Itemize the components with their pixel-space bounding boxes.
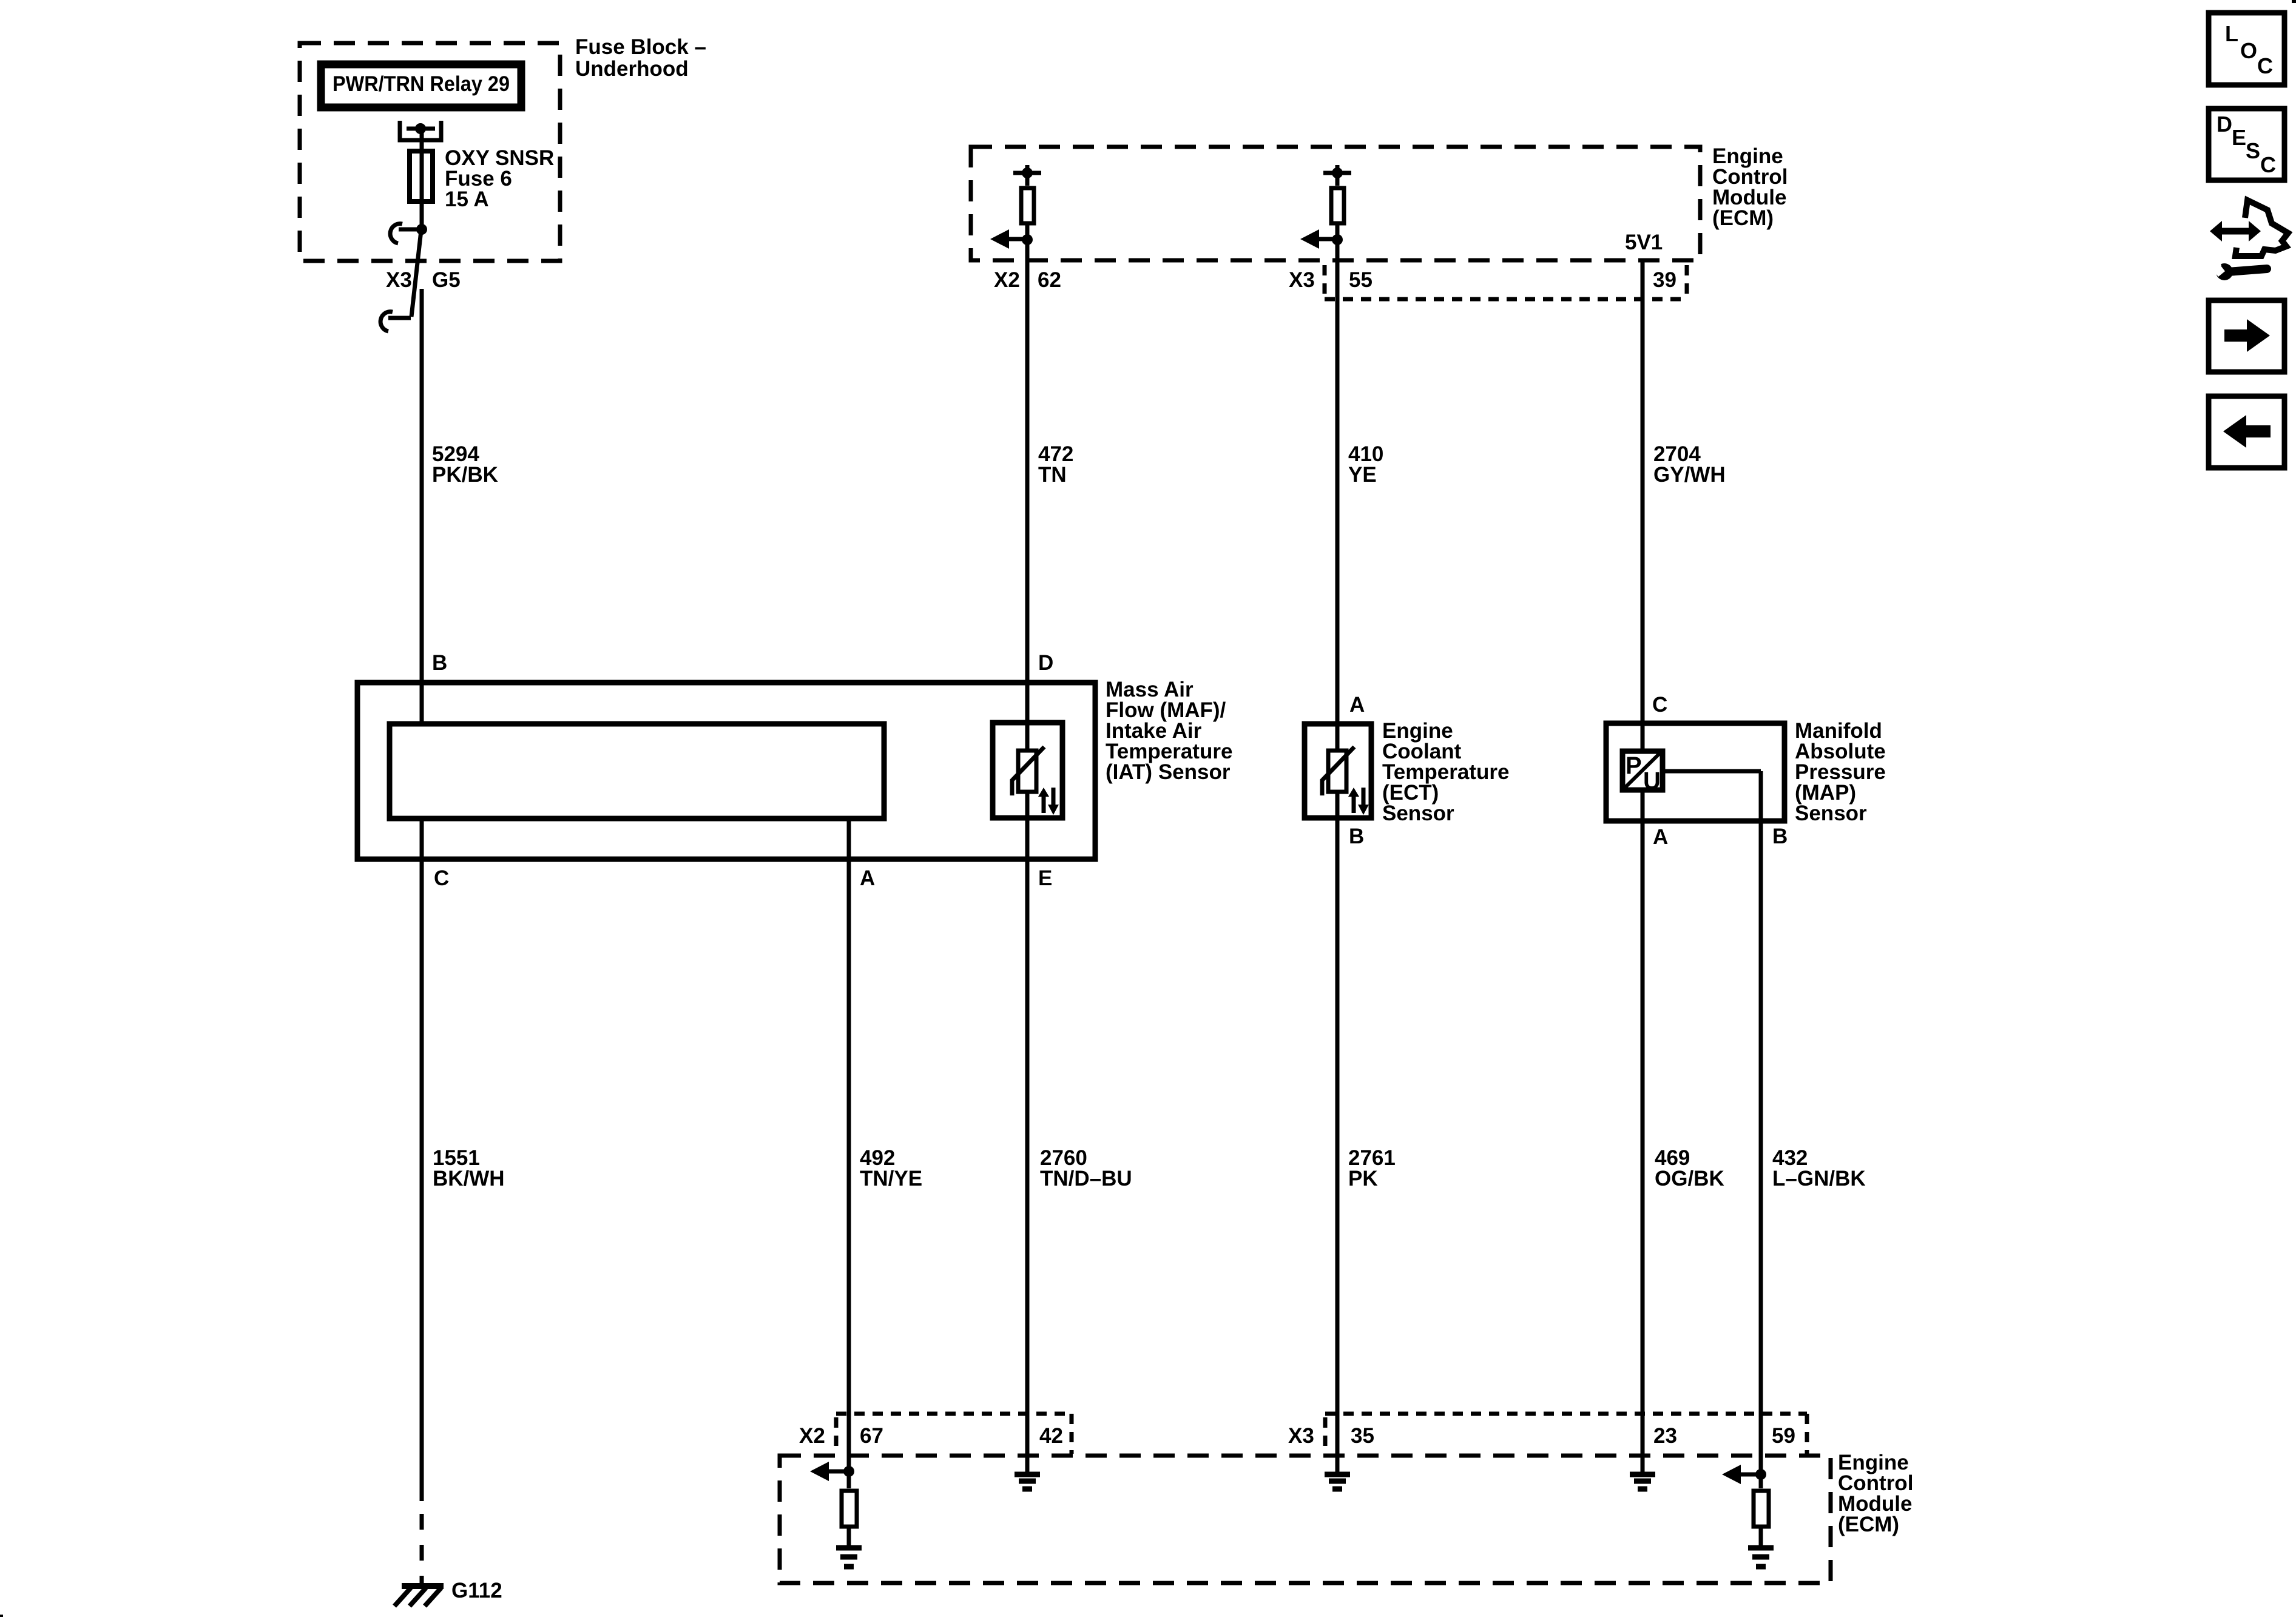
ECM pull-up resistor R2 (pin 55) (1323, 165, 1351, 223)
pin letter B (432, 651, 447, 675)
wire label 2760 TN/D-BU (1040, 1146, 1132, 1190)
svg-text:23: 23 (1653, 1424, 1677, 1448)
svg-text:L: L (2225, 21, 2238, 46)
svg-text:55: 55 (1349, 268, 1373, 292)
svg-text:X3: X3 (1288, 1424, 1314, 1448)
ECM connector X2 dotted sub-box (pins 67..42) (836, 1414, 1072, 1454)
ECM signal arrow at pin 55 (1300, 229, 1343, 249)
label: Engine Control Module (ECM) bottom (1838, 1451, 1913, 1536)
pin letter A (MAP) (1653, 825, 1668, 849)
dashed wire to G112 (420, 1514, 424, 1584)
ECT thermistor symbol (1322, 747, 1354, 795)
sidebar left-arrow box (2209, 396, 2284, 468)
svg-text:TN: TN (1038, 463, 1067, 487)
MAP sensor box (1606, 723, 1784, 821)
svg-text:(ECM): (ECM) (1712, 206, 1774, 230)
wire 432 L-GN/BK (MAP B to pin 59) (1759, 771, 1763, 1474)
svg-text:67: 67 (860, 1424, 883, 1448)
sidebar LOC box (2209, 13, 2284, 85)
IAT thermistor symbol (1012, 747, 1044, 795)
ECM signal arrow at pin 62 (990, 229, 1033, 249)
page corner mark top-right (2292, 0, 2296, 3)
svg-text:L–GN/BK: L–GN/BK (1772, 1167, 1866, 1190)
svg-text:39: 39 (1653, 268, 1676, 292)
svg-text:Underhood: Underhood (575, 57, 689, 81)
svg-text:B: B (1772, 825, 1788, 848)
chassis ground G112 (394, 1586, 444, 1606)
svg-text:C: C (434, 866, 449, 890)
pin letter B (MAP) (1772, 825, 1788, 848)
ECM signal arrow at pin 67 (810, 1462, 854, 1481)
ECM signal arrow at pin 59 (1722, 1465, 1766, 1484)
svg-text:PWR/TRN Relay 29: PWR/TRN Relay 29 (333, 72, 510, 96)
wire IAT D-E through box (1025, 792, 1030, 1472)
wire label 469 OG/BK (1655, 1146, 1724, 1190)
pin letter A (MAF) (860, 866, 875, 890)
svg-text:O: O (2240, 38, 2257, 63)
ECM internal resistor at pin 59 (1754, 1474, 1769, 1548)
svg-text:X2: X2 (799, 1424, 825, 1448)
svg-text:S: S (2246, 138, 2260, 163)
svg-text:(ECM): (ECM) (1838, 1513, 1899, 1536)
label: OXY SNSR Fuse 6 15 A (445, 146, 554, 211)
label: Mass Air Flow (MAF)/ Intake Air Temperature (IAT) Sensor (1106, 678, 1232, 784)
fuse block - underhood dashed box (300, 43, 560, 261)
svg-text:GY/WH: GY/WH (1653, 463, 1726, 487)
wire label 410 YE (1348, 442, 1383, 487)
pin letter A (ECT) (1349, 693, 1365, 717)
label: Manifold Absolute Pressure (MAP) Sensor (1795, 719, 1886, 825)
label: Engine Coolant Temperature (ECT) Sensor (1382, 719, 1509, 825)
sidebar hand double-arrow icon (2210, 200, 2288, 256)
pin letter C (434, 866, 449, 890)
svg-text:Sensor: Sensor (1795, 802, 1867, 825)
MAF sensor inner box (390, 724, 884, 819)
wire from relay to fuse (420, 129, 424, 232)
relay PWR/TRN Relay 29 (321, 64, 521, 107)
engine control module (ECM) bottom dashed box (780, 1456, 1831, 1583)
svg-text:42: 42 (1039, 1424, 1063, 1448)
svg-text:5V1: 5V1 (1625, 231, 1663, 254)
ECM internal resistor at pin 67 (842, 1471, 857, 1548)
svg-text:U: U (1643, 768, 1661, 794)
svg-text:D: D (1038, 651, 1053, 675)
sidebar wrench icon (2210, 260, 2267, 280)
wire label 2761 PK (1348, 1146, 1396, 1190)
svg-text:C: C (2260, 152, 2276, 177)
relay contact terminal bracket (400, 121, 441, 140)
svg-text:Sensor: Sensor (1382, 802, 1454, 825)
svg-text:B: B (1349, 825, 1364, 848)
earth ground at pin 67 resistor (836, 1548, 862, 1567)
IAT thermistor arrows (1038, 788, 1059, 815)
wire label 432 L-GN/BK (1772, 1146, 1866, 1190)
pin letter E (1038, 866, 1052, 890)
inline connector upper half (hook + junction dot) (390, 224, 427, 243)
wire 2704 GY/WH (pin 39 to MAP C) (1641, 258, 1645, 751)
earth ground at pin 23 (1630, 1474, 1655, 1489)
ECT sensor box (1305, 724, 1371, 818)
svg-text:E: E (1038, 866, 1052, 890)
inline connector slanted wire through X3/G5 (411, 231, 421, 317)
MAP P/U transducer symbol (1622, 750, 1663, 794)
pin letter C (MAP) (1652, 693, 1667, 717)
svg-text:X3: X3 (1289, 268, 1315, 292)
page corner mark bottom-left (0, 1615, 3, 1617)
MAF/IAT sensor outer box (357, 683, 1095, 859)
inline connector lower half (hook) (380, 312, 411, 331)
wire 492 TN/YE from MAF A (847, 819, 851, 1471)
wire label 1551 BK/WH (433, 1146, 505, 1190)
earth ground at pin 42 (1015, 1474, 1040, 1489)
svg-text:B: B (432, 651, 447, 675)
sidebar right-arrow box (2209, 300, 2284, 372)
label G112 (451, 1579, 502, 1602)
svg-text:35: 35 (1351, 1424, 1374, 1448)
ECT thermistor arrows (1348, 788, 1369, 815)
connector labels X3 | G5 (386, 268, 461, 292)
wire 5294 PK/BK vertical (420, 289, 424, 724)
svg-text:D: D (2217, 112, 2232, 137)
svg-text:PK/BK: PK/BK (432, 463, 498, 487)
svg-text:YE: YE (1348, 463, 1377, 487)
label: Fuse Block - Underhood (575, 35, 706, 81)
svg-text:G5: G5 (432, 268, 461, 292)
net 5V1 (1625, 231, 1663, 254)
svg-text:59: 59 (1772, 1424, 1795, 1448)
fuse F6 OXY SNSR 15 A (410, 151, 433, 201)
svg-text:BK/WH: BK/WH (433, 1167, 505, 1190)
svg-text:G112: G112 (451, 1579, 502, 1602)
label: Engine Control Module (ECM) top (1712, 144, 1788, 230)
svg-text:15 A: 15 A (445, 187, 489, 211)
wire 410 YE (pin 55 to ECT A) (1335, 225, 1340, 751)
pin letter D (1038, 651, 1053, 675)
svg-text:A: A (1349, 693, 1365, 717)
svg-text:PK: PK (1348, 1167, 1378, 1190)
svg-text:(IAT) Sensor: (IAT) Sensor (1106, 760, 1231, 784)
svg-text:TN/YE: TN/YE (860, 1167, 922, 1190)
svg-text:C: C (2257, 53, 2273, 78)
wire label 2704 GY/WH (1653, 442, 1726, 487)
svg-text:C: C (1652, 693, 1667, 717)
ECM connector X3 dotted sub-box (pins 55..39) (1325, 265, 1687, 299)
wire 1551 BK/WH from MAF C (420, 819, 424, 1501)
IAT thermistor box (993, 723, 1062, 818)
sidebar DESC box (2209, 109, 2284, 180)
svg-text:Fuse Block –: Fuse Block – (575, 35, 706, 59)
ECM pull-up resistor R1 (pin 62) (1013, 165, 1041, 223)
wire label 492 TN/YE (860, 1146, 922, 1190)
wire 469 OG/BK (MAP A to pin 23) (1641, 790, 1645, 1472)
pin letter B (ECT) (1349, 825, 1364, 848)
svg-text:P: P (1626, 752, 1642, 779)
wire 472 TN (pin 62 to IAT D) (1025, 225, 1030, 751)
svg-text:TN/D–BU: TN/D–BU (1040, 1167, 1132, 1190)
pin labels X2 62 X3 55 39 (994, 268, 1676, 292)
MAP internal wire to B (1663, 769, 1761, 774)
svg-text:X2: X2 (994, 268, 1020, 292)
engine control module (ECM) top dashed box (971, 147, 1700, 260)
svg-text:X3: X3 (386, 268, 412, 292)
svg-text:E: E (2232, 125, 2246, 150)
wire label 472 TN (1038, 442, 1073, 487)
svg-text:A: A (860, 866, 875, 890)
svg-text:A: A (1653, 825, 1668, 849)
wire label 5294 PK/BK (432, 442, 498, 487)
ECM connector X3 dotted sub-box (pins 35..59) (1325, 1414, 1807, 1454)
earth ground at pin 35 (1325, 1474, 1350, 1489)
svg-text:62: 62 (1038, 268, 1061, 292)
wire 2761 PK (ECT B to pin 35) (1335, 792, 1340, 1472)
svg-text:OG/BK: OG/BK (1655, 1167, 1724, 1190)
earth ground at pin 59 resistor (1748, 1548, 1774, 1567)
pin labels X2 67 42 X3 35 23 59 (799, 1424, 1795, 1448)
